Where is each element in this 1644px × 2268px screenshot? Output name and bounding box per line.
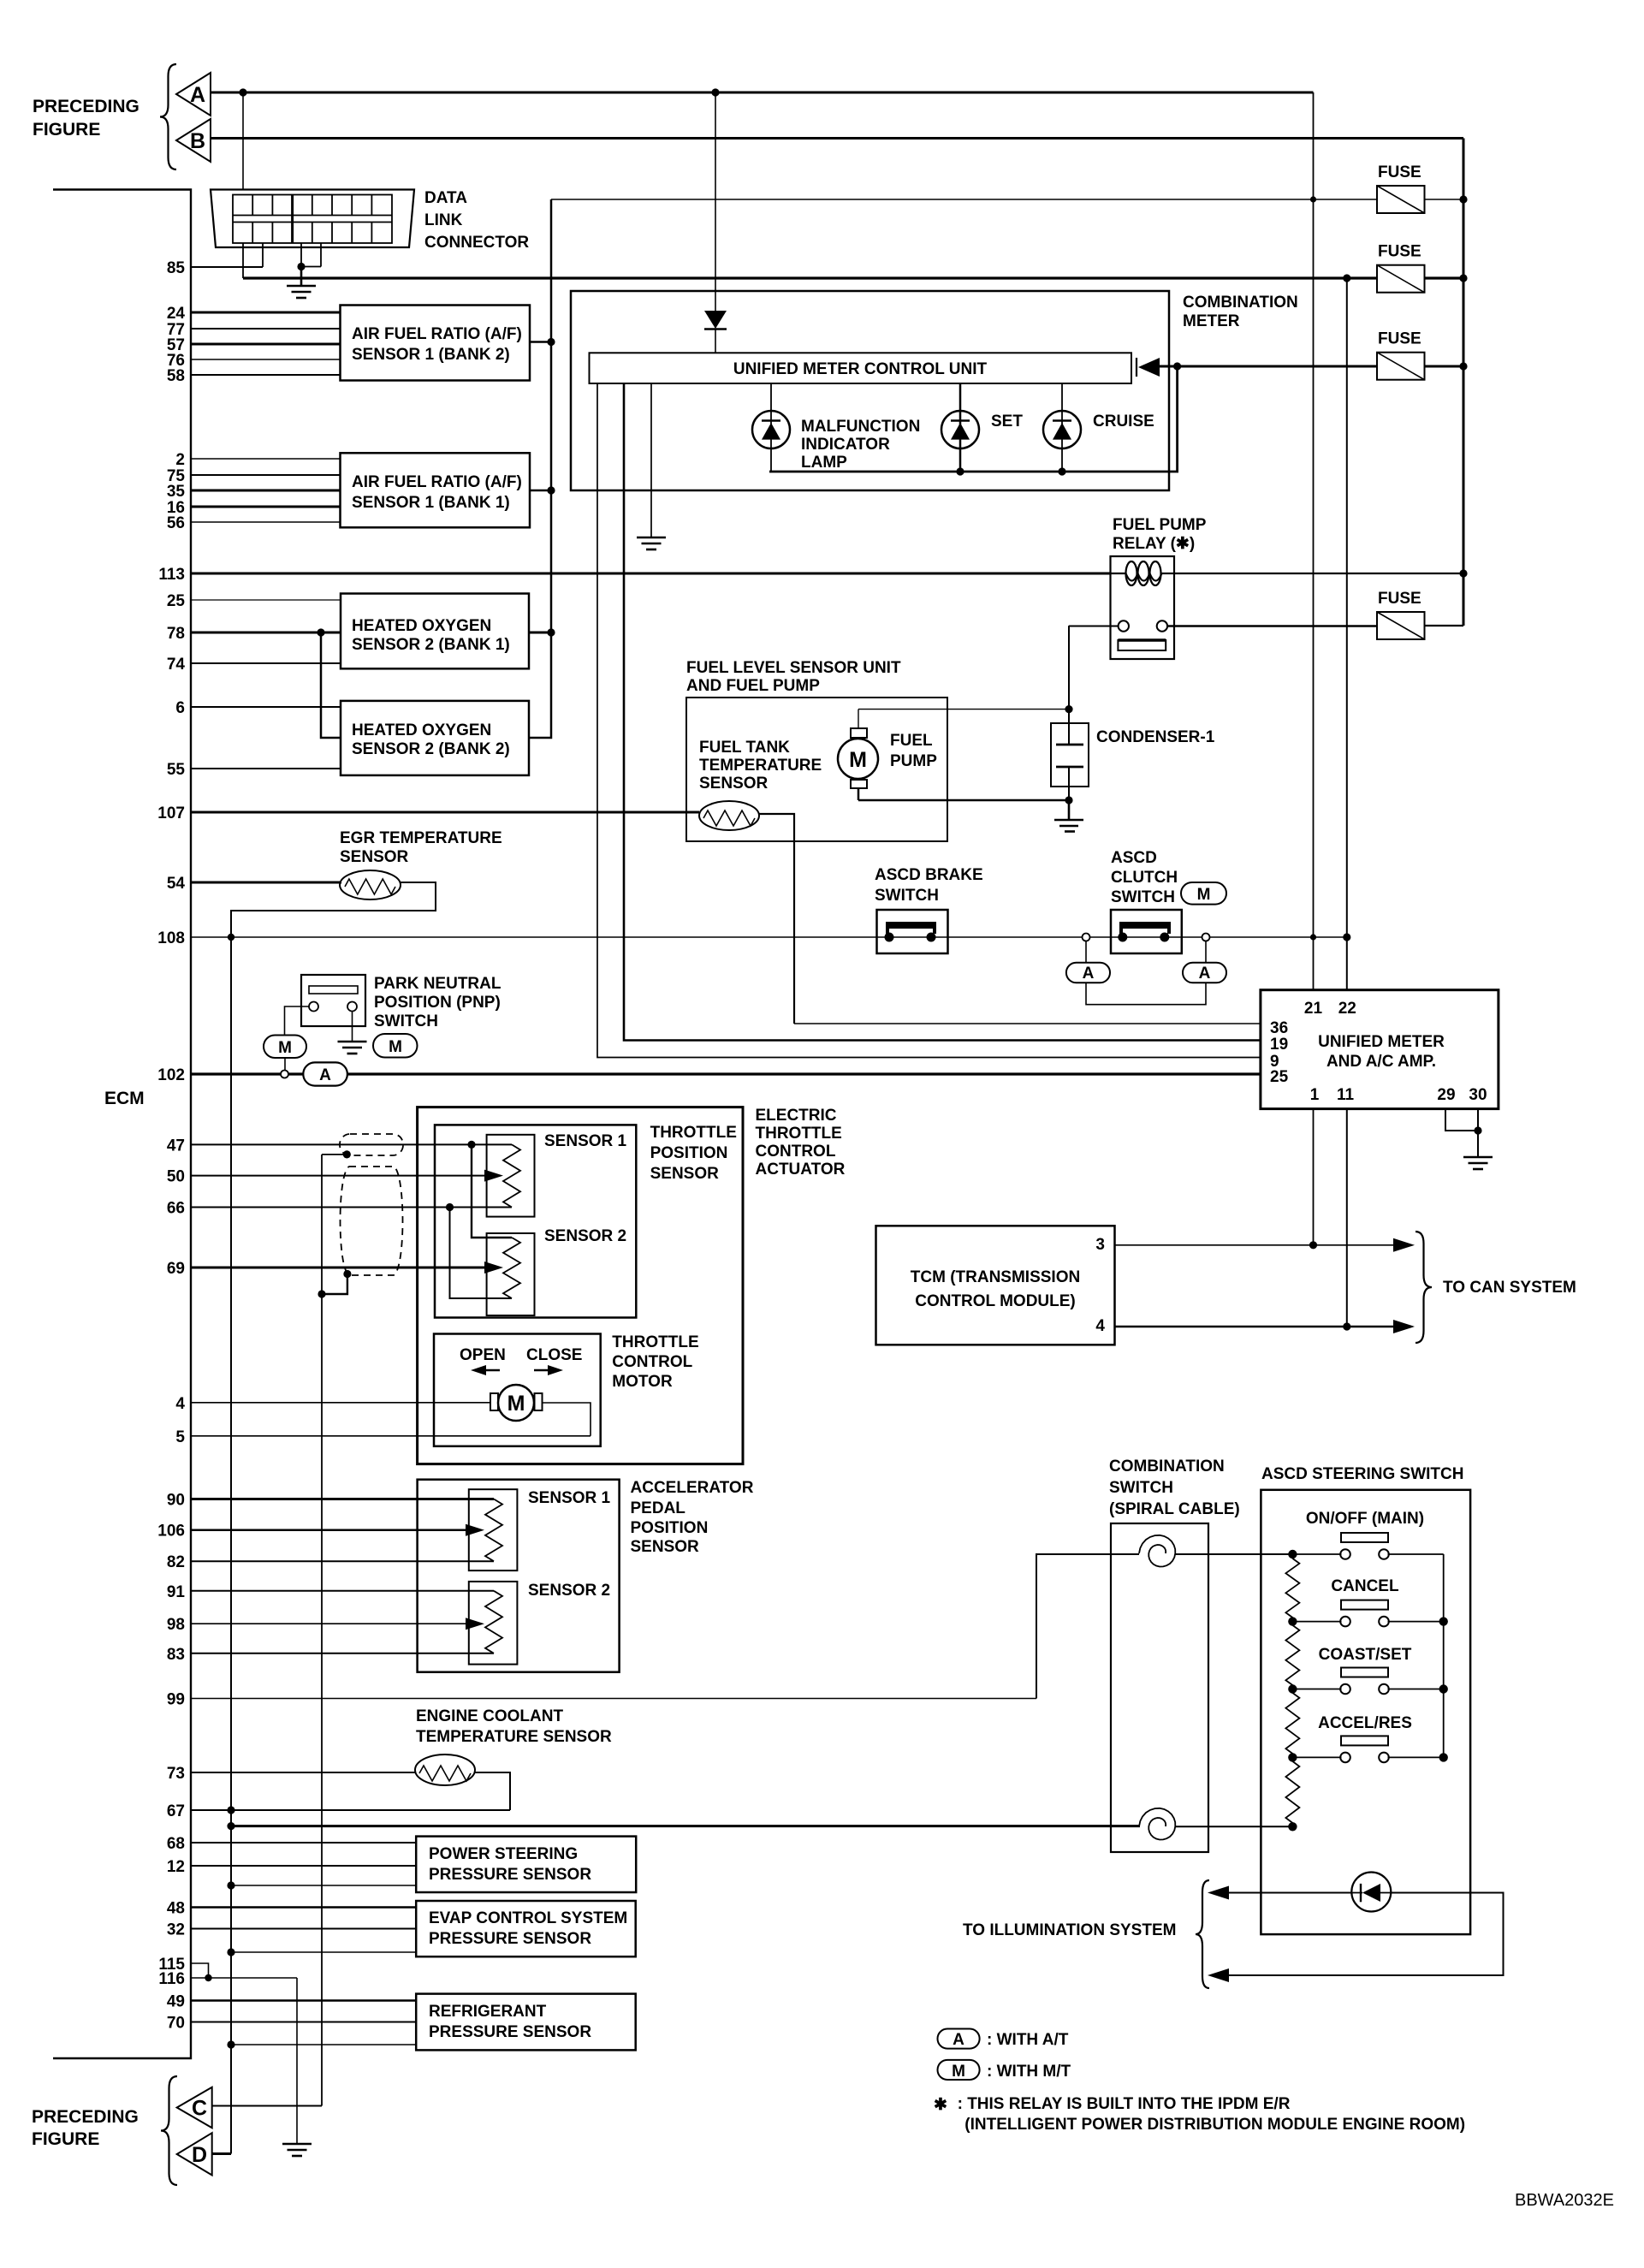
svg-text:FUSE: FUSE: [1378, 243, 1421, 261]
arrow illumination lower: [1208, 1968, 1229, 1982]
A oval on 102 row: [303, 1062, 347, 1085]
AF sensor bank1 box: [341, 453, 531, 527]
wire right bus: [1463, 139, 1465, 626]
node fuse2 row to down bus: [1343, 274, 1350, 282]
spiral bottom: [1139, 1808, 1175, 1840]
svg-text:SENSOR: SENSOR: [699, 775, 769, 793]
arrow close: [534, 1365, 563, 1375]
svg-text:A: A: [319, 1066, 331, 1084]
spiral top: [1139, 1535, 1175, 1567]
illumination lamp diode: [1351, 1873, 1391, 1912]
lamp CRUISE symbol: [1043, 383, 1081, 472]
wire EVAP third pin: [231, 1951, 416, 1953]
svg-text:UNIFIED METER CONTROL UNIT: UNIFIED METER CONTROL UNIT: [733, 360, 988, 378]
label HO2S bank2: [352, 721, 510, 758]
label ASCD CLUTCH SWITCH: [1111, 849, 1178, 906]
svg-text:99: 99: [167, 1691, 185, 1709]
wire DLC ground pins: [301, 243, 321, 267]
label HO2S bank1: [352, 617, 510, 654]
label POWER STEERING PRESSURE SENSOR: [429, 1845, 591, 1884]
node PS third pin at x270: [227, 1881, 234, 1889]
svg-text:4: 4: [175, 1395, 185, 1413]
label ASCD BRAKE SWITCH: [875, 866, 983, 905]
svg-text:(INTELLIGENT POWER DISTRIBUTIO: (INTELLIGENT POWER DISTRIBUTION MODULE E…: [964, 2116, 1465, 2134]
ground below PNP: [338, 1042, 367, 1054]
wire bus x1574 below amp: [1346, 1109, 1348, 1327]
wire ECM pin 74: [191, 662, 341, 664]
wire tank sensor to amp riser: [759, 814, 794, 1024]
svg-text:25: 25: [1270, 1068, 1289, 1086]
resistor APP sensor1: [485, 1499, 502, 1562]
wire ECM pin 55: [191, 768, 341, 769]
wire TCM pin4 CAN: [1115, 1326, 1398, 1328]
fuse 3: [1377, 353, 1425, 380]
node fuse1 row at A vertical: [1310, 196, 1316, 202]
wire AF bank2 right pin: [530, 341, 551, 343]
wire ECM pin 116: [191, 1977, 297, 1979]
wire ECM pin 4: [191, 1402, 490, 1404]
relay coil: [1111, 561, 1175, 585]
wire ECM pin 35: [191, 490, 341, 492]
wire DLC pin to fuse2 row stub: [242, 243, 244, 278]
label ELECTRIC THROTTLE CONTROL ACTUATOR: [756, 1107, 846, 1179]
svg-text:2: 2: [175, 451, 185, 469]
connector arrow D: [177, 2133, 212, 2175]
relay contacts: [1118, 620, 1167, 650]
label EGR TEMPERATURE SENSOR: [340, 829, 502, 866]
resistor TPS sensor1: [503, 1144, 520, 1207]
shield capsule lower: [341, 1167, 403, 1275]
svg-text:: THIS RELAY IS BUILT INTO THE: : THIS RELAY IS BUILT INTO THE IPDM E/R: [958, 2095, 1291, 2113]
resistor ladder seg4: [1285, 1757, 1299, 1826]
throttle control motor box: [434, 1334, 601, 1446]
svg-text:TCM (TRANSMISSION: TCM (TRANSMISSION: [911, 1268, 1080, 1286]
svg-text:B: B: [190, 129, 205, 153]
node AF bus top: [547, 338, 555, 346]
node bus coil row: [1459, 569, 1467, 577]
wire PS third pin: [231, 1885, 416, 1886]
label ENGINE COOLANT TEMPERATURE SENSOR: [416, 1707, 612, 1746]
resistor ladder seg3: [1285, 1689, 1299, 1758]
brace TO CAN: [1416, 1232, 1432, 1343]
unified meter and AC amp box: [1261, 990, 1499, 1109]
svg-text:ELECTRIC: ELECTRIC: [756, 1107, 837, 1125]
data link connector trapezoid: [211, 190, 414, 248]
label relay note: [934, 2095, 1465, 2134]
ECM box outline: [53, 190, 191, 2059]
node on A row at meter diode: [711, 88, 719, 96]
wire ECM pin 107: [191, 811, 699, 814]
node refrigerant third pin at x270: [227, 2040, 234, 2048]
node 108 row end at fuse2 bus: [1343, 933, 1350, 941]
wire condenser riser: [1068, 626, 1070, 709]
label TCM: [911, 1268, 1080, 1310]
wire AF bank1 right pin: [530, 490, 551, 492]
svg-text:M: M: [507, 1392, 525, 1416]
wire ECM pin 83: [191, 1653, 494, 1654]
svg-text:OPEN: OPEN: [460, 1346, 506, 1364]
wire ECM pin 25: [191, 599, 341, 601]
M oval clutch: [1181, 882, 1226, 905]
label UNIFIED METER AND A/C AMP: [1318, 1033, 1445, 1071]
wire fuel pump minus: [858, 799, 1069, 802]
wire relay coil to bus: [1174, 573, 1463, 574]
ground below meter: [637, 537, 666, 549]
svg-text:UNIFIED METER: UNIFIED METER: [1318, 1033, 1445, 1051]
svg-text:66: 66: [167, 1200, 185, 1218]
svg-text:SWITCH: SWITCH: [374, 1012, 438, 1030]
svg-text:SENSOR 2 (BANK 1): SENSOR 2 (BANK 1): [352, 636, 510, 654]
svg-text:6: 6: [175, 699, 185, 717]
wire ECM pin 99: [191, 1698, 1036, 1700]
power steering pressure sensor box: [416, 1837, 636, 1892]
svg-text:PRECEDING: PRECEDING: [32, 2107, 139, 2127]
svg-text:M: M: [1197, 886, 1211, 904]
svg-text:91: 91: [167, 1583, 186, 1601]
fuse 4: [1377, 612, 1425, 639]
svg-text:FUEL LEVEL SENSOR UNIT: FUEL LEVEL SENSOR UNIT: [686, 659, 901, 677]
wire ECM pin 67: [191, 1809, 510, 1811]
svg-text:SWITCH: SWITCH: [1111, 888, 1175, 906]
svg-text:67: 67: [167, 1802, 185, 1820]
svg-text:PRESSURE SENSOR: PRESSURE SENSOR: [429, 2023, 591, 2041]
svg-text:HEATED OXYGEN: HEATED OXYGEN: [352, 721, 491, 739]
svg-text:74: 74: [167, 656, 186, 674]
wire ECM pin 6: [191, 706, 341, 708]
svg-text:SENSOR: SENSOR: [340, 848, 409, 866]
svg-text:ACCELERATOR: ACCELERATOR: [631, 1479, 754, 1497]
svg-text:11: 11: [1337, 1086, 1355, 1104]
wire ECM pin 75: [191, 474, 341, 476]
fuel pump relay box: [1111, 556, 1175, 659]
switch CANCEL: [1292, 1600, 1443, 1627]
svg-text:CRUISE: CRUISE: [1093, 413, 1154, 430]
svg-text:102: 102: [157, 1066, 185, 1084]
brace bottom-left: [161, 2076, 177, 2185]
node 108 row at A bus: [1310, 934, 1316, 940]
wire ECM pin 115: [191, 1963, 209, 1978]
engine coolant temperature sensor: [415, 1754, 475, 1785]
node AF bus mid: [547, 486, 555, 494]
svg-text:CONTROL: CONTROL: [756, 1143, 836, 1161]
svg-text:SWITCH: SWITCH: [1109, 1479, 1173, 1497]
svg-text:THROTTLE: THROTTLE: [612, 1333, 698, 1351]
node rail cancel: [1439, 1617, 1448, 1625]
throttle control motor: [490, 1385, 543, 1421]
svg-text:COMBINATION: COMBINATION: [1183, 294, 1298, 312]
brace top-left: [160, 64, 176, 169]
TPS sensor1 box: [487, 1135, 535, 1217]
svg-text:MALFUNCTION: MALFUNCTION: [801, 418, 920, 436]
wire B row: [211, 137, 1463, 140]
wire ECM pin 49: [191, 1999, 417, 2002]
svg-text:DATA: DATA: [424, 189, 467, 207]
throttle position sensor box: [435, 1125, 636, 1317]
svg-text:54: 54: [167, 875, 186, 893]
EVAP control system pressure sensor box: [416, 1901, 636, 1956]
svg-text:108: 108: [157, 929, 185, 947]
svg-text:CONNECTOR: CONNECTOR: [424, 234, 529, 252]
node 47 branch: [467, 1141, 475, 1149]
svg-text:56: 56: [167, 514, 185, 532]
node fuse3 row branch: [1173, 362, 1181, 370]
svg-text:83: 83: [167, 1646, 185, 1664]
wire ECM pin 48: [191, 1906, 417, 1909]
label FUEL LEVEL SENSOR UNIT AND FUEL PUMP: [686, 659, 901, 695]
svg-text:CONTROL: CONTROL: [612, 1353, 692, 1371]
wire ECM pin 57: [191, 343, 341, 346]
svg-text:REFRIGERANT: REFRIGERANT: [429, 2003, 547, 2021]
svg-text:SENSOR 2: SENSOR 2: [528, 1582, 610, 1600]
svg-text:FIGURE: FIGURE: [33, 120, 100, 140]
wire fuse1 row: [551, 199, 1377, 200]
arrow CAN top: [1393, 1238, 1415, 1252]
svg-text:HEATED OXYGEN: HEATED OXYGEN: [352, 617, 491, 635]
wire ECM pin 91: [191, 1590, 494, 1592]
wire ECM pin 70: [191, 2022, 417, 2023]
TCM box: [876, 1226, 1115, 1345]
switch ACCEL/RES: [1292, 1736, 1443, 1762]
resistor APP sensor2: [485, 1591, 502, 1654]
shield capsule upper: [340, 1134, 403, 1155]
wire lamp return riser: [769, 366, 1178, 472]
svg-text:A: A: [1199, 965, 1211, 983]
wire 78 branch down to HO2S bank2: [321, 632, 341, 738]
svg-text:3: 3: [1095, 1236, 1105, 1254]
svg-text:COAST/SET: COAST/SET: [1319, 1646, 1412, 1664]
switch COAST/SET: [1292, 1668, 1443, 1695]
fuel pump motor: [838, 709, 878, 800]
label AF bank2: [352, 325, 522, 364]
svg-text:4: 4: [1095, 1317, 1105, 1335]
A oval clutch right: [1183, 941, 1226, 983]
wire relay left contact lead: [1069, 626, 1119, 627]
wire PNP right contact to ground: [352, 1011, 353, 1042]
wire fuse2 to bus: [1425, 276, 1464, 279]
svg-text:82: 82: [167, 1553, 185, 1571]
wire ECM pin 69 with wiper arrow: [191, 1267, 496, 1269]
node pin30 junction: [1474, 1126, 1481, 1134]
node shield vertical join: [318, 1290, 325, 1297]
node 108 row at EGR loop: [228, 934, 234, 941]
ground below DLC: [287, 267, 316, 299]
heated oxygen sensor bank1 box: [341, 594, 529, 669]
wire ECM pin 50 with wiper arrow: [191, 1175, 496, 1177]
label REFRIGERANT PRESSURE SENSOR: [429, 2003, 591, 2041]
wire A ovals bottom link: [1086, 983, 1206, 1005]
svg-text:5: 5: [175, 1428, 185, 1446]
label AF bank1: [352, 473, 522, 512]
svg-text:MOTOR: MOTOR: [612, 1373, 673, 1391]
svg-text:POSITION: POSITION: [650, 1144, 728, 1162]
wire spiral bottom to ladder: [1175, 1826, 1292, 1827]
svg-text:TO CAN SYSTEM: TO CAN SYSTEM: [1443, 1279, 1576, 1297]
node ladder 2: [1288, 1617, 1297, 1625]
fuel level sensor unit box: [686, 698, 947, 841]
wire ECM pin 82: [191, 1560, 494, 1562]
wire ECM pin 73: [191, 1772, 416, 1773]
svg-text:: WITH M/T: : WITH M/T: [987, 2063, 1071, 2081]
svg-text:CLUTCH: CLUTCH: [1111, 869, 1178, 887]
svg-text:98: 98: [167, 1616, 185, 1634]
svg-text:: WITH A/T: : WITH A/T: [987, 2031, 1069, 2049]
svg-text:AIR FUEL RATIO (A/F): AIR FUEL RATIO (A/F): [352, 473, 522, 491]
svg-text:ECM: ECM: [104, 1089, 145, 1108]
label FUEL TANK TEMPERATURE SENSOR: [699, 739, 822, 793]
wire relay right contact lead: [1167, 625, 1377, 626]
label THROTTLE POSITION SENSOR: [650, 1124, 737, 1183]
fuse 2: [1377, 265, 1425, 293]
svg-text:FUSE: FUSE: [1378, 163, 1421, 181]
node spiral feed at x270: [227, 1822, 234, 1830]
svg-text:EGR TEMPERATURE: EGR TEMPERATURE: [340, 829, 502, 847]
wire ASCD feed from 99: [1036, 1554, 1139, 1699]
svg-text:PARK NEUTRAL: PARK NEUTRAL: [374, 975, 502, 993]
svg-text:106: 106: [157, 1523, 185, 1541]
label PRECEDING FIGURE (top): [33, 97, 139, 140]
svg-text:69: 69: [167, 1260, 185, 1278]
wire ECM pin 78: [191, 632, 341, 634]
svg-text:36: 36: [1270, 1019, 1288, 1037]
svg-text:116: 116: [158, 1970, 185, 1988]
ASCD brake switch: [877, 910, 948, 953]
wire fuse3 to bus: [1425, 365, 1464, 368]
fuel tank temperature sensor: [699, 801, 759, 830]
svg-text:25: 25: [167, 592, 186, 610]
diode into unified meter control unit: [704, 311, 727, 353]
svg-text:M: M: [278, 1039, 292, 1057]
wire amp pin36 row: [794, 1023, 1261, 1024]
svg-text:ASCD STEERING SWITCH: ASCD STEERING SWITCH: [1261, 1465, 1463, 1483]
wire coolant sensor loop: [475, 1772, 510, 1810]
wire ECM pin 5: [191, 1435, 591, 1437]
arrow CAN bottom: [1393, 1320, 1415, 1333]
refrigerant pressure sensor box: [416, 1994, 636, 2051]
wire shield top to vertical: [322, 1154, 347, 1155]
wire right rail: [1443, 1554, 1445, 1757]
wire fuse1 to bus: [1425, 199, 1464, 200]
svg-text:48: 48: [167, 1900, 185, 1918]
svg-text:PRECEDING: PRECEDING: [33, 97, 139, 116]
svg-text:A: A: [953, 2031, 964, 2049]
wire ECM pin 47: [191, 1143, 512, 1145]
svg-text:49: 49: [167, 1993, 185, 2011]
wire meter pin to amp 19: [624, 383, 1261, 1041]
lamp MIL symbol: [752, 383, 790, 472]
wire PNP left contact: [285, 1006, 310, 1036]
wire ECM pin 108 row: [191, 936, 1347, 938]
svg-text:FUEL PUMP: FUEL PUMP: [1113, 516, 1207, 534]
svg-text:24: 24: [167, 305, 186, 323]
ASCD steering switch box: [1261, 1490, 1470, 1934]
ground below condenser: [1054, 800, 1083, 832]
svg-text:LAMP: LAMP: [801, 454, 847, 472]
wire EGR loop: [231, 882, 436, 937]
wire ECM pin 2: [191, 458, 341, 460]
wire illumination loop: [1226, 1893, 1504, 1976]
wire ECM pin 106 with wiper arrow: [191, 1529, 478, 1531]
node SET on return: [956, 467, 964, 475]
node on A row at DLC: [239, 88, 246, 96]
node bus fuse3: [1459, 362, 1467, 370]
node ladder 4: [1288, 1753, 1297, 1761]
wire fuel pump plus: [858, 709, 1069, 710]
svg-text:LINK: LINK: [424, 211, 463, 229]
svg-text:THROTTLE: THROTTLE: [650, 1124, 737, 1142]
node shield top: [343, 1150, 351, 1158]
label MALFUNCTION INDICATOR LAMP: [801, 418, 920, 472]
svg-text:ACTUATOR: ACTUATOR: [756, 1161, 846, 1179]
wire A row: [211, 92, 1314, 94]
svg-text:A: A: [1083, 965, 1095, 983]
svg-text:ASCD: ASCD: [1111, 849, 1157, 867]
wire ECM pin 16: [191, 506, 341, 508]
svg-text:21: 21: [1304, 1000, 1323, 1018]
svg-text:ACCEL/RES: ACCEL/RES: [1318, 1714, 1412, 1732]
node CRUISE on return: [1058, 467, 1065, 475]
wire fuse4 to bus: [1425, 625, 1464, 626]
wire motor return: [543, 1403, 591, 1436]
electric throttle control actuator box: [418, 1107, 743, 1464]
node ladder bottom: [1288, 1822, 1297, 1831]
svg-text:SENSOR 1: SENSOR 1: [544, 1132, 627, 1150]
label COMBINATION METER: [1183, 294, 1298, 330]
svg-text:AND A/C AMP.: AND A/C AMP.: [1326, 1053, 1436, 1071]
svg-text:70: 70: [167, 2015, 185, 2033]
svg-text:CLOSE: CLOSE: [526, 1346, 582, 1364]
svg-text:PRESSURE SENSOR: PRESSURE SENSOR: [429, 1930, 591, 1948]
node condenser bottom: [1065, 796, 1072, 804]
node rail coast: [1439, 1684, 1448, 1693]
node open circle left of clutch: [1083, 934, 1090, 941]
wire ECM pin 58: [191, 374, 341, 376]
svg-text:A: A: [190, 83, 205, 107]
svg-text:22: 22: [1338, 1000, 1356, 1018]
svg-text:ASCD BRAKE: ASCD BRAKE: [875, 866, 983, 884]
A oval clutch left: [1066, 941, 1110, 983]
svg-text:29: 29: [1437, 1086, 1455, 1104]
svg-text:FUEL: FUEL: [890, 732, 933, 750]
node 78 row branch: [317, 628, 324, 636]
connector arrow B: [176, 119, 211, 162]
wire ECM pin 98 with wiper arrow: [191, 1623, 478, 1624]
node rail accel: [1439, 1753, 1448, 1761]
ground below amp: [1463, 1157, 1493, 1169]
lamp SET symbol: [941, 383, 979, 472]
svg-text:73: 73: [167, 1765, 185, 1783]
label PRECEDING FIGURE (bottom): [32, 2107, 139, 2149]
node ladder 3: [1288, 1684, 1297, 1693]
wire 47 branch to sensor2 top: [472, 1144, 512, 1238]
node AF bus lower: [547, 628, 555, 636]
wire ECM pin 54: [191, 882, 341, 884]
svg-text:78: 78: [167, 625, 185, 643]
wire fuse3 row to diode: [1160, 365, 1377, 368]
ground for 116: [282, 2144, 312, 2156]
svg-text:M: M: [849, 748, 867, 772]
arrow illumination upper: [1208, 1886, 1229, 1900]
node 66 branch: [446, 1203, 454, 1211]
wire meter ground pin: [650, 383, 652, 537]
wire x270 vertical: [230, 937, 232, 2154]
label DATA LINK CONNECTOR: [424, 189, 529, 252]
accelerator pedal position sensor box: [418, 1480, 620, 1672]
node EVAP third pin at x270: [227, 1948, 234, 1956]
wire ECM pin 85: [191, 266, 263, 268]
APP sensor1 box: [469, 1489, 518, 1570]
svg-text:EVAP CONTROL SYSTEM: EVAP CONTROL SYSTEM: [429, 1909, 627, 1927]
wire spiral cable bottom feed: [231, 1825, 1140, 1827]
